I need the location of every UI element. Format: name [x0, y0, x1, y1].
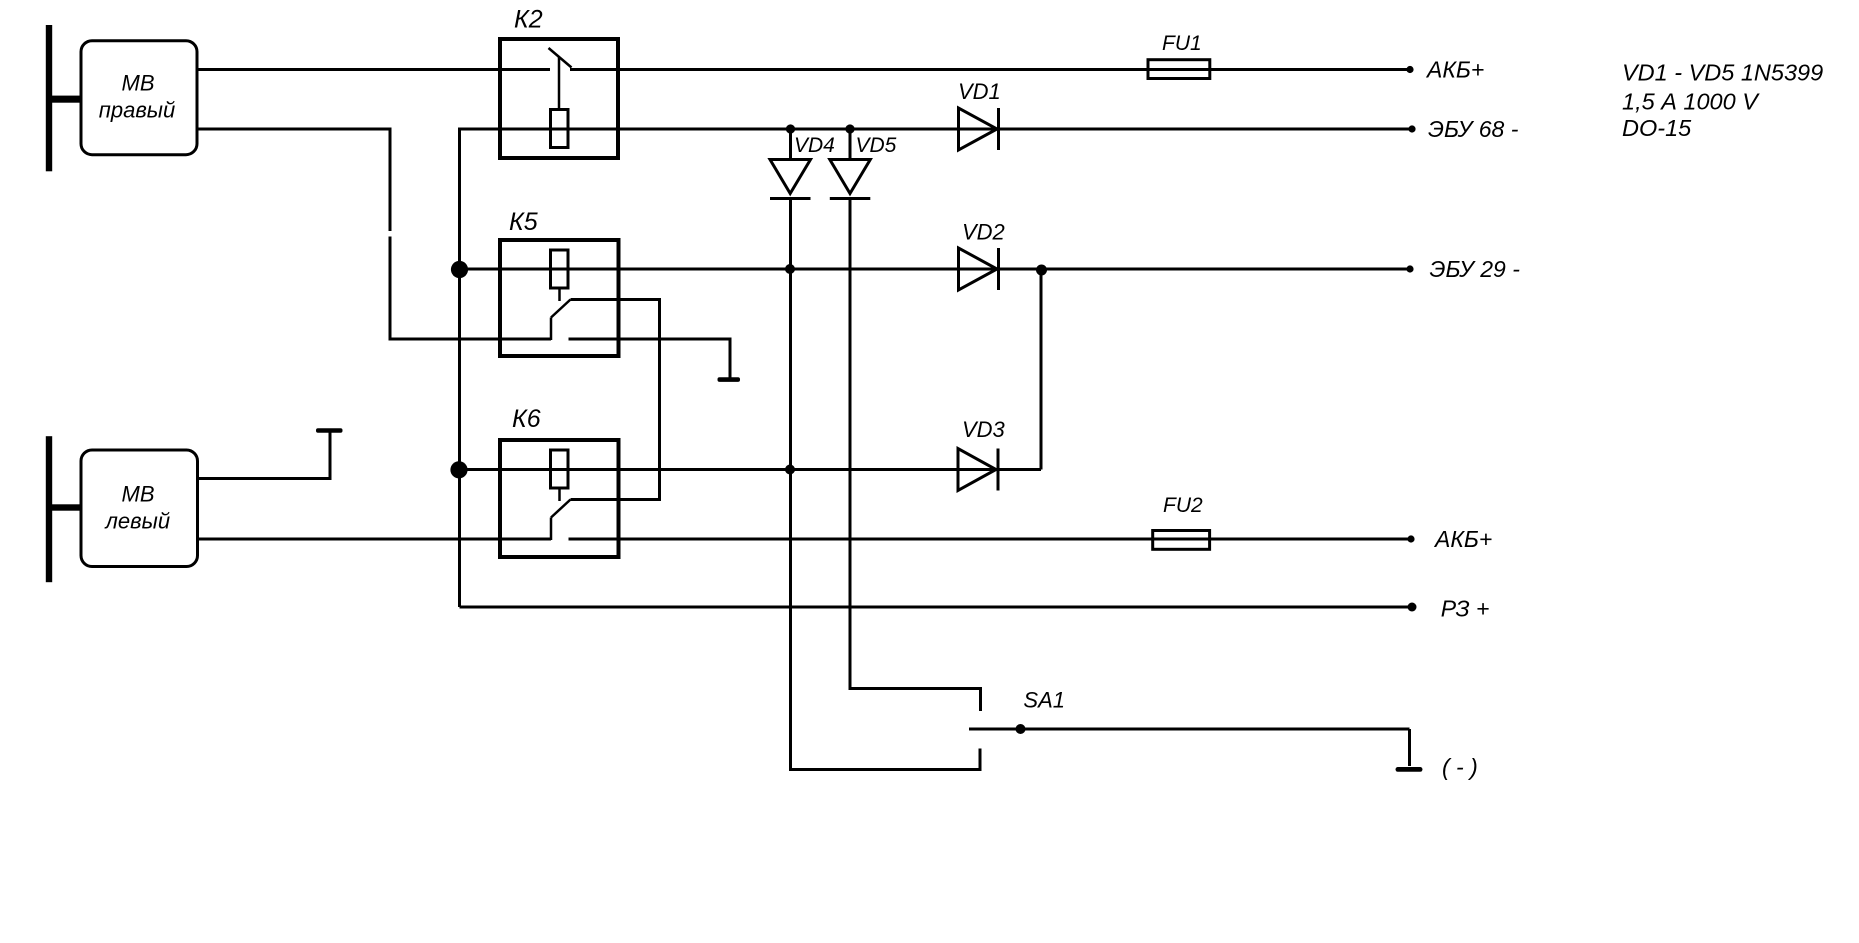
motor MV-left label	[104, 482, 171, 534]
motor MV-right box	[81, 41, 197, 155]
relay K5 changeover contact	[551, 289, 571, 340]
wire EBU 68- to VD5 anode	[849, 129, 852, 160]
svg-text:DO-15: DO-15	[1622, 115, 1692, 141]
diode VD2	[959, 248, 999, 290]
relay K2 switch contact	[549, 48, 572, 109]
relay K2 coil	[551, 110, 569, 148]
motor MV-left box	[81, 450, 198, 567]
terminal dot AKB+ (FU2)	[1407, 535, 1414, 542]
junction node VD4 line x EBU29 wire	[785, 264, 795, 274]
svg-text:ЭБУ 29 -: ЭБУ 29 -	[1430, 256, 1521, 282]
svg-text:VD1 - VD5 1N5399: VD1 - VD5 1N5399	[1622, 59, 1823, 85]
svg-text:FU2: FU2	[1163, 494, 1203, 517]
diode VD1	[959, 108, 999, 150]
terminal dot AKB+	[1406, 66, 1413, 73]
junction node VD5 anode on EBU68 wire	[845, 124, 854, 133]
svg-text:ЭБУ 68 -: ЭБУ 68 -	[1428, 116, 1519, 142]
wire EBU 68- to VD4 anode	[789, 129, 792, 160]
svg-text:1,5 А 1000 V: 1,5 А 1000 V	[1622, 89, 1760, 115]
svg-text:( - ): ( - )	[1442, 754, 1478, 780]
relay K6 changeover contact	[551, 489, 571, 540]
wire MV-right to K2 switch (AKB+ net)	[199, 68, 551, 71]
wire RZ+	[460, 606, 1413, 609]
wire K6 coil line to VD3	[460, 468, 1042, 471]
wire K5 switch output to K6 switch output	[571, 300, 660, 500]
junction node VD4 anode on EBU68 wire	[786, 124, 795, 133]
svg-text:левый: левый	[104, 509, 171, 534]
ground chassis bar (MV-left)	[316, 428, 343, 433]
junction node VD2/VD3 outputs	[1036, 265, 1047, 276]
wire K6 NO contact to FU2 to AKB+ terminal	[569, 538, 1412, 541]
svg-text:АКБ+: АКБ+	[1433, 526, 1492, 552]
svg-text:VD4: VD4	[794, 134, 835, 157]
svg-text:FU1: FU1	[1162, 32, 1202, 55]
junction node VD4 line x K6 wire	[785, 465, 795, 475]
wire MV-left to K6 common contact	[199, 538, 551, 541]
svg-text:АКБ+: АКБ+	[1425, 57, 1484, 83]
svg-text:правый: правый	[99, 98, 175, 123]
svg-text:РЗ +: РЗ +	[1441, 596, 1490, 622]
svg-text:SA1: SA1	[1023, 688, 1065, 713]
fuse FU2	[1153, 531, 1210, 550]
relay K6 box	[500, 440, 619, 557]
svg-text:VD1: VD1	[958, 79, 1001, 104]
terminal dot EBU 29-	[1406, 265, 1413, 272]
terminal dot EBU 68-	[1408, 125, 1415, 132]
terminal dot RZ+	[1408, 603, 1417, 612]
ground bar ( - )	[1396, 767, 1423, 772]
svg-text:VD3: VD3	[962, 417, 1006, 442]
relay K2 box	[500, 39, 618, 158]
wire K5 NO contact to chassis ground	[569, 339, 731, 380]
wire EBU 29- (K5 coil to terminal via VD2)	[460, 268, 1411, 271]
svg-text:МВ: МВ	[122, 482, 155, 507]
switch SA1 blade	[969, 728, 1410, 731]
wire VD4 cathode down to SA1 lower contact	[791, 199, 981, 770]
wire VD3 output up to EBU29 node	[1040, 270, 1043, 470]
motor MV-right terminal bar	[46, 25, 80, 171]
diode VD3	[958, 449, 998, 491]
svg-text:VD2: VD2	[962, 220, 1005, 245]
diode VD5	[830, 160, 871, 199]
wire VD5 cathode down to SA1 upper contact	[850, 199, 981, 712]
relay K6 coil	[551, 450, 569, 488]
fuse FU1	[1148, 60, 1210, 79]
svg-text:К6: К6	[512, 405, 541, 433]
motor MV-right label	[99, 71, 175, 123]
svg-text:МВ: МВ	[122, 71, 155, 96]
junction dot SA1	[1016, 724, 1026, 734]
relay K5 box	[500, 240, 619, 356]
junction node K5 coil left	[451, 261, 468, 278]
motor MV-left terminal bar	[46, 436, 81, 582]
wire MV-left to chassis ground	[199, 432, 330, 479]
wire MV-right to K5 common contact	[199, 129, 552, 339]
info text block VD1-VD5	[1622, 59, 1823, 141]
svg-text:К2: К2	[514, 6, 543, 34]
wire left bus vertical (K2 coil / K5 coil / K6 coil / RZ+)	[458, 128, 461, 608]
svg-text:К5: К5	[509, 208, 538, 236]
svg-text:VD5: VD5	[856, 134, 897, 157]
wire K2 switch to FU1 to AKB+ terminal	[570, 68, 1410, 71]
relay K5 coil	[551, 250, 569, 288]
junction node K6 coil left	[450, 461, 467, 478]
diode VD4	[770, 160, 811, 199]
wire K2 coil to EBU 68- (via VD1)	[460, 128, 1413, 131]
ground chassis bar (K5)	[718, 377, 741, 382]
wire SA1 to ground	[1408, 729, 1411, 766]
